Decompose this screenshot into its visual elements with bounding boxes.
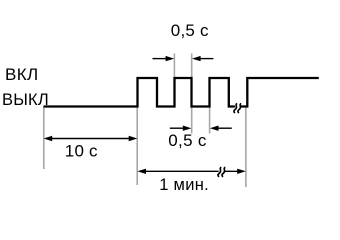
svg-text:10 с: 10 с (65, 141, 98, 160)
waveform trace (44, 78, 319, 107)
break symbol on 1 min dimension line (218, 167, 221, 177)
svg-text:0,5 с: 0,5 с (171, 21, 209, 40)
svg-text:0,5 с: 0,5 с (168, 131, 207, 150)
arrow bottom-left pointing right (0,5 s OFF gap) (170, 127, 184, 129)
extension line bottom dim left (191, 108, 193, 134)
extension line left of 10 s dimension (43, 107, 45, 170)
arrow top-right pointing left (199, 58, 213, 60)
dimension line 10 s with two arrowheads (47, 138, 134, 140)
break symbol on waveform low line (234, 104, 237, 114)
svg-text:ВЫКЛ: ВЫКЛ (2, 91, 49, 109)
extension line bottom dim right (209, 108, 211, 134)
extension line shared 10 s / 1 min at first rising edge (136, 107, 138, 186)
extension line top dim right (pulse2 fall) (191, 54, 193, 79)
dimension line 1 min with two arrowheads and break (141, 170, 219, 172)
arrow top-left pointing right (153, 58, 168, 60)
extension line right of 1 min dimension (245, 107, 247, 188)
svg-text:ВКЛ: ВКЛ (5, 65, 39, 84)
arrow bottom-right pointing left (217, 127, 232, 129)
extension line top dim left (pulse2 rise) (173, 54, 175, 79)
svg-text:1 мин.: 1 мин. (159, 176, 209, 194)
